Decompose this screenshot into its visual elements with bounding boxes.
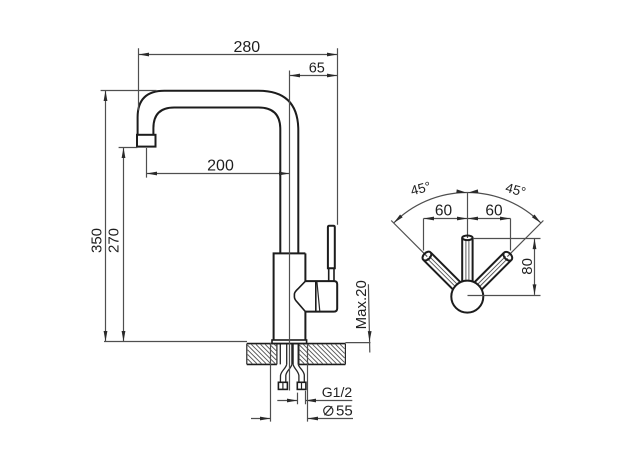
handle cartridge housing: [305, 281, 337, 312]
dim 270: [104, 148, 247, 342]
svg-text:65: 65: [309, 60, 325, 76]
housing seam: [315, 281, 317, 312]
deck hatching left: [248, 344, 277, 363]
supply tubes in hole: [280, 344, 298, 364]
spout inner profile: [153, 108, 280, 254]
lever middle vertical: [462, 236, 472, 283]
svg-text:270: 270: [106, 228, 123, 253]
lever position right 45: [474, 250, 514, 290]
dim 200: [147, 148, 290, 178]
spout outer profile: [138, 91, 299, 254]
svg-text:350: 350: [89, 228, 106, 253]
dim 280: [139, 39, 338, 225]
knob center line: [468, 295, 541, 297]
lever axis left: [391, 221, 452, 282]
handle cone cap: [294, 281, 305, 311]
dim G1/2: [277, 384, 352, 404]
knob ball: [451, 281, 483, 313]
aerator tip: [137, 135, 156, 147]
top view vertical centerline: [467, 193, 469, 282]
svg-text:60: 60: [435, 203, 453, 220]
dim 65: [290, 60, 338, 77]
faucet body column: [274, 253, 306, 340]
svg-text:200: 200: [207, 158, 234, 175]
lever neck: [329, 268, 334, 281]
dim Max.20: [345, 280, 371, 352]
deck hatching right: [300, 344, 345, 363]
svg-text:55: 55: [336, 403, 353, 420]
left hose: [280, 364, 292, 382]
svg-text:Max.20: Max.20: [353, 280, 370, 329]
left hose nut G1/2: [278, 382, 287, 389]
svg-text:G1/2: G1/2: [322, 384, 353, 400]
countertop deck outline: [247, 344, 346, 365]
centerline of faucet: [289, 71, 291, 391]
dim 80: [473, 239, 541, 295]
right hose: [293, 364, 304, 382]
lever axis right: [482, 221, 543, 282]
top view: swivel arc 45deg: [392, 189, 542, 224]
svg-text:280: 280: [233, 39, 260, 56]
dim 350: [89, 91, 157, 342]
svg-text:60: 60: [485, 203, 503, 220]
dim 60-60: [424, 203, 511, 251]
right hose nut G1/2: [297, 382, 306, 389]
svg-text:80: 80: [519, 258, 536, 275]
base flange: [272, 340, 307, 344]
dim diameter 55: [251, 343, 353, 422]
lever position left 45: [421, 250, 461, 290]
lever bar: [328, 226, 335, 268]
housing tilt joint: [317, 282, 320, 312]
